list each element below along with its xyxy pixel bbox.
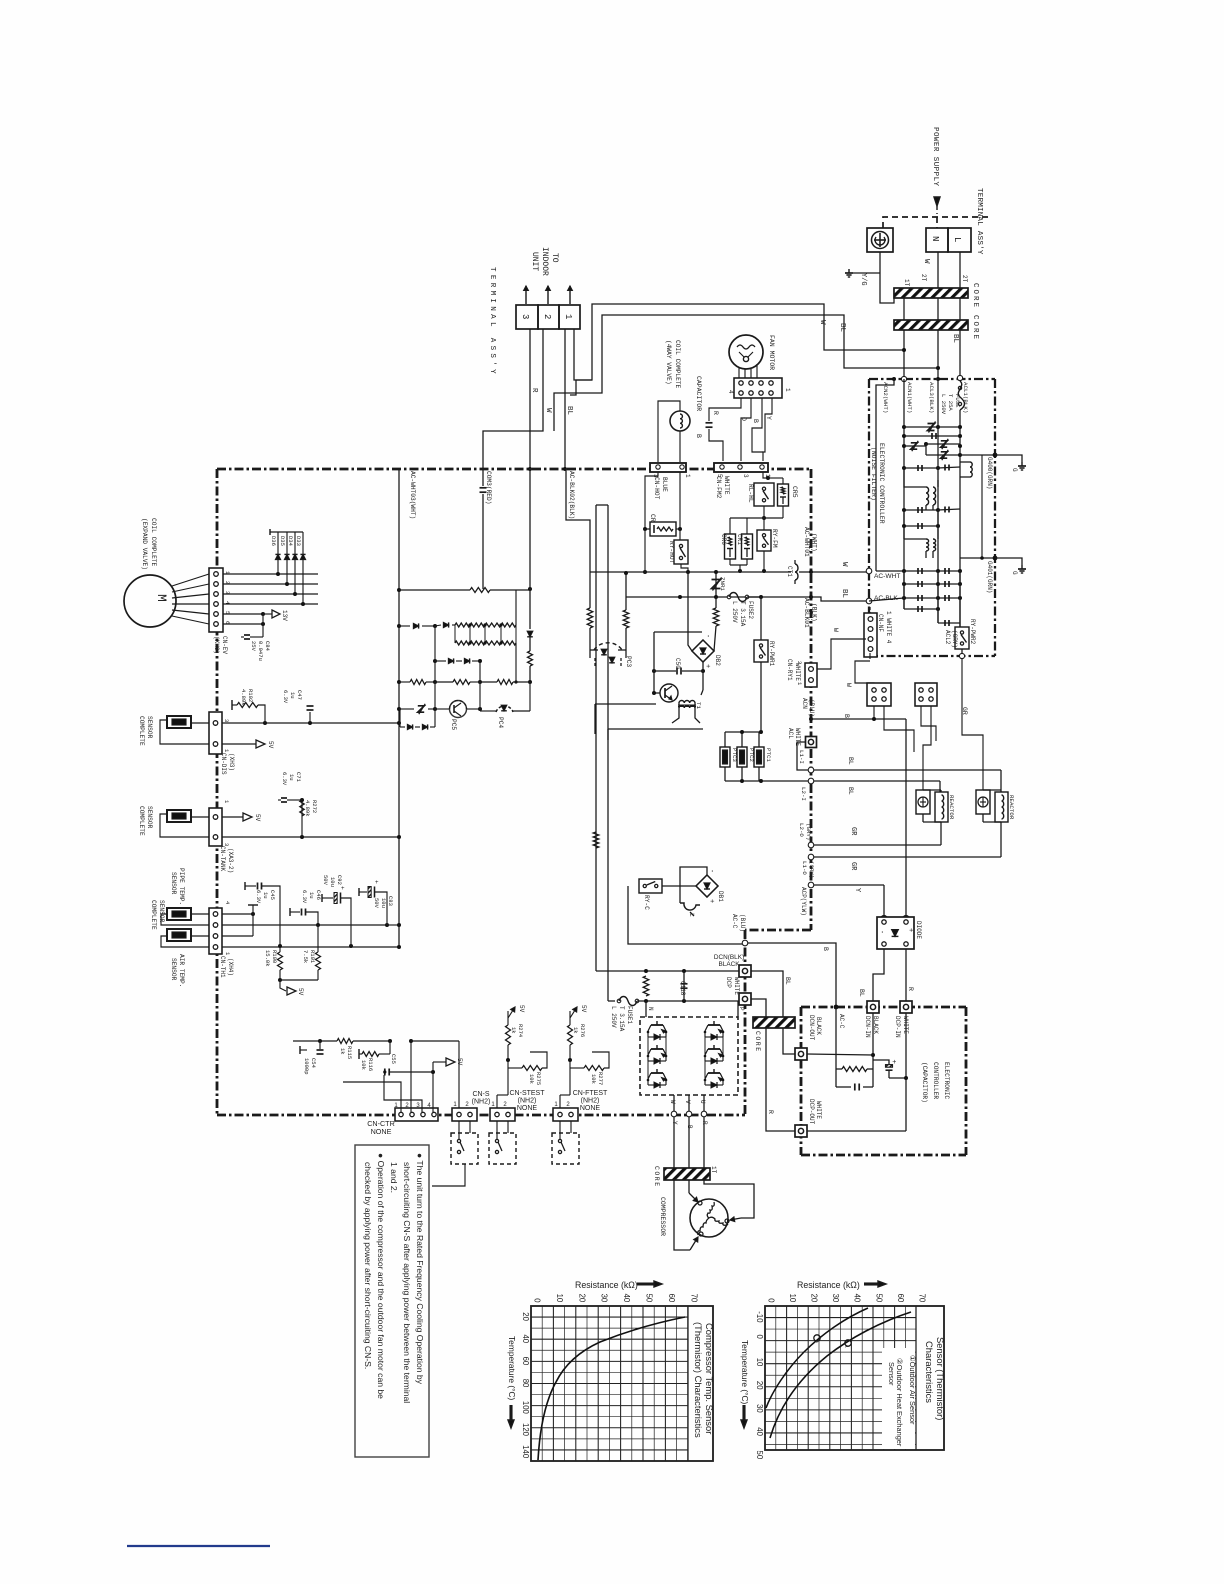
svg-text:CN-HOT: CN-HOT (653, 477, 660, 500)
noise filter box dash-dot (869, 378, 995, 380)
terminal L1-O (808, 854, 814, 860)
svg-text:T1: T1 (695, 702, 702, 709)
connector DCN (739, 965, 751, 977)
optocoupler PC3 (594, 643, 622, 650)
connector CN-FM2 on boundary (714, 463, 768, 472)
wire R115 R116 C54 C55 cluster (293, 1040, 337, 1042)
compressor wire B (688, 1180, 690, 1193)
N rail (596, 970, 740, 972)
svg-text:AC-WHT03(WHT): AC-WHT03(WHT) (409, 471, 416, 519)
reactor 2 (976, 790, 990, 814)
svg-text:2: 2 (542, 314, 552, 319)
svg-text:6.3V: 6.3V (301, 890, 308, 904)
resistor row y682 (399, 681, 410, 683)
connector DCN-IN (867, 1001, 879, 1013)
wire B down to diode box (905, 719, 907, 917)
svg-text:C54: C54 (310, 1058, 317, 1069)
svg-text:1k: 1k (572, 1027, 579, 1034)
svg-text:R277: R277 (597, 1072, 604, 1085)
svg-text:checked by applying power afte: checked by applying power after short-ci… (363, 1162, 373, 1369)
terminal ACP YLW (808, 882, 814, 888)
svg-text:L 250V: L 250V (610, 1006, 617, 1028)
capacitor connector block (734, 378, 782, 398)
svg-text:3: 3 (223, 719, 230, 722)
boundary circles U V W (671, 1111, 677, 1117)
varistor row1 (902, 425, 906, 429)
wire RY-HOT down (681, 564, 688, 572)
svg-text:V: V (684, 1100, 691, 1104)
wire GR L1-O to reactor2 (814, 856, 1001, 858)
svg-text:N: N (930, 236, 940, 241)
wire DCP-IN down (905, 1013, 907, 1131)
electrolytic cap (886, 1065, 893, 1068)
fuse 25A (958, 381, 964, 410)
svg-text:+: + (906, 928, 914, 932)
svg-text:GR: GR (961, 707, 968, 715)
svg-text:short-circuiting CN-S after ap: short-circuiting CN-S after applying pow… (402, 1162, 412, 1403)
wire diode to DCP-IN (905, 949, 907, 1001)
relay RY-PWR1 (754, 640, 768, 662)
cap C83 electrolytic (358, 888, 360, 896)
svg-text:25V: 25V (250, 641, 257, 652)
varistor ZNR1 (715, 572, 717, 597)
svg-text:(BLU): (BLU) (808, 699, 815, 717)
wire block B to reactor1 plug (923, 706, 931, 790)
5V arrow left (432, 1062, 434, 1112)
long wire down left (595, 505, 597, 971)
svg-text:10k: 10k (360, 1060, 367, 1071)
svg-text:CR5: CR5 (791, 486, 798, 498)
connector CN-STEST (490, 1108, 515, 1121)
graph1 compressor temp sensor (531, 1306, 713, 1461)
svg-text:5V: 5V (267, 741, 274, 749)
svg-text:40: 40 (853, 1294, 862, 1303)
wire RY-C to AC-C (628, 886, 742, 944)
fuse FUSE2 (678, 595, 682, 599)
svg-text:NONE: NONE (371, 1127, 392, 1136)
wire CN-S switch to note box (432, 1164, 465, 1186)
terminal ACL WHITE (806, 737, 817, 748)
arrows to indoor unit (525, 286, 527, 304)
current transformer CT1 (795, 564, 798, 580)
svg-text:PC4: PC4 (497, 717, 504, 728)
svg-text:BL: BL (847, 787, 854, 795)
svg-text:(NH2): (NH2) (581, 1098, 600, 1105)
svg-text:U: U (699, 1100, 706, 1104)
svg-text:N: N (647, 1007, 654, 1011)
wire CN-CTR pin2 up (410, 1041, 412, 1112)
wire CN-TANK pin1 5V (222, 816, 243, 818)
connector DCN-OUT (795, 1048, 807, 1060)
compressor R wire from DB1 (706, 897, 708, 908)
svg-text:AC-WHT01: AC-WHT01 (803, 527, 810, 557)
svg-text:POWER SUPPLY: POWER SUPPLY (931, 127, 939, 187)
wires fan motor to capacitor block (738, 367, 740, 378)
svg-text:(GRY): (GRY) (808, 861, 815, 878)
svg-text:W: W (832, 628, 839, 632)
compressor wire Y (674, 1180, 690, 1250)
svg-text:DIODE: DIODE (915, 921, 922, 939)
svg-text:GR: GR (849, 827, 857, 836)
svg-text:SENSOR: SENSOR (170, 872, 177, 895)
wire diode to DCN-IN (873, 949, 884, 1001)
svg-text:W: W (544, 408, 552, 413)
ground plug box (867, 228, 893, 252)
core 1 hatched (894, 288, 968, 298)
wire W from N (937, 252, 939, 288)
svg-text:BLACK: BLACK (719, 961, 741, 968)
wires lower loops (595, 703, 656, 705)
terminal block 3 2 1 (516, 305, 538, 329)
svg-text:ZNR1: ZNR1 (719, 577, 726, 591)
svg-text:DCP: DCP (725, 977, 732, 988)
svg-text:40: 40 (755, 1427, 764, 1436)
wire CN-DIS pin3 (222, 722, 399, 724)
cap row2 (902, 466, 906, 470)
svg-text:WHITE: WHITE (815, 1101, 822, 1119)
svg-text:(XH4): (XH4) (227, 958, 234, 976)
svg-text:COM3(RED): COM3(RED) (485, 471, 492, 504)
svg-text:+: + (703, 664, 711, 668)
svg-text:DCP-IN: DCP-IN (894, 1016, 901, 1038)
wire R column down (529, 468, 531, 589)
svg-text:R276: R276 (579, 1024, 586, 1037)
svg-text:7.5k: 7.5k (302, 950, 309, 964)
wire CN-TH1 pin3 long (222, 924, 387, 926)
svg-text:BLACK: BLACK (815, 1017, 822, 1035)
svg-text:C92: C92 (336, 875, 343, 885)
core 2 hatched (894, 320, 968, 330)
svg-text:L2-I: L2-I (800, 787, 807, 801)
svg-text:1u: 1u (308, 892, 315, 899)
svg-text:REACTOR: REACTOR (948, 795, 955, 820)
cap C47 (309, 712, 311, 723)
svg-text:30: 30 (831, 1294, 840, 1303)
bus line right of sensors (398, 469, 400, 947)
wire AC-BLK left drop (625, 573, 627, 597)
svg-text:C55: C55 (390, 1054, 397, 1064)
svg-text:RL-HL: RL-HL (747, 484, 754, 503)
svg-text:①Outdoor Air Sensor: ①Outdoor Air Sensor (908, 1355, 917, 1425)
cap C45 (244, 882, 246, 890)
wire block B left pin down (921, 706, 936, 741)
5V arrow sensors (280, 979, 318, 981)
svg-text:L: L (688, 913, 695, 917)
connector block A 2x2 (867, 683, 891, 706)
junction dots on boundary (528, 467, 532, 471)
svg-text:(Thermistor) Characteristics: (Thermistor) Characteristics (693, 1322, 704, 1438)
core dc hatched (753, 1017, 795, 1028)
svg-text:B: B (843, 714, 850, 718)
svg-text:C50: C50 (674, 658, 681, 669)
wire DB1 right to compressor R riser (718, 885, 751, 887)
svg-text:AC-BLK01: AC-BLK01 (803, 598, 810, 628)
wire CN-HOT3 to CR3 (645, 472, 658, 529)
compressor terminals (698, 1201, 702, 1205)
connector CN-RY1 on boundary (805, 663, 817, 687)
svg-text:40: 40 (521, 1334, 530, 1343)
svg-text:1u: 1u (288, 774, 295, 781)
wire pin6 C84 (223, 623, 263, 625)
svg-text:5V: 5V (254, 814, 261, 822)
svg-text:0: 0 (755, 1335, 764, 1340)
wire BL L1-I to reactor2 coil (814, 769, 1001, 771)
svg-text:Y: Y (765, 416, 772, 420)
svg-text:BL: BL (858, 989, 865, 997)
svg-text:CN-FM2: CN-FM2 (715, 476, 722, 499)
svg-text:TERMINAL ASS'Y: TERMINAL ASS'Y (488, 267, 496, 377)
svg-text:ACP(YLW): ACP(YLW) (800, 887, 807, 916)
svg-text:1T: 1T (903, 279, 910, 287)
diode box (877, 917, 914, 949)
filter entries (892, 377, 896, 381)
svg-text:COMPLETE: COMPLETE (138, 806, 145, 836)
svg-text:BL: BL (840, 589, 848, 599)
svg-text:R102: R102 (247, 689, 254, 702)
svg-text:PTC1: PTC1 (765, 748, 772, 762)
terminal L2-O (808, 842, 814, 848)
svg-text:AIR TEMP.: AIR TEMP. (178, 954, 185, 987)
module internal rails (647, 1032, 649, 1080)
svg-text:ELECTRONIC CONTROLLER: ELECTRONIC CONTROLLER (878, 443, 885, 524)
svg-text:AC-C: AC-C (731, 914, 738, 929)
resistor to PC3 left (587, 608, 593, 628)
svg-text:ACL1(BLK): ACL1(BLK) (962, 382, 969, 413)
PTC bottom bus to L2-I (725, 780, 808, 782)
svg-text:(BLK): (BLK) (811, 603, 818, 622)
svg-text:6.3V: 6.3V (281, 772, 288, 786)
svg-text:L1-O: L1-O (801, 861, 808, 875)
svg-text:Y/G: Y/G (859, 273, 867, 286)
svg-text:Temperature (°C): Temperature (°C) (740, 1340, 750, 1405)
svg-text:WHITE: WHITE (723, 476, 730, 495)
arrow power supply feed (934, 197, 940, 206)
svg-text:CORE: CORE (653, 1166, 660, 1188)
svg-text:Sensor: Sensor (887, 1362, 896, 1386)
wire W from cell2 (483, 329, 543, 486)
svg-text:CR1: CR1 (736, 534, 743, 545)
svg-text:R: R (701, 1121, 708, 1125)
ground Y/G (853, 272, 880, 274)
svg-text:-: - (707, 869, 715, 873)
svg-text:B: B (752, 419, 759, 423)
svg-text:W: W (669, 1100, 676, 1104)
svg-text:DCN-OUT: DCN-OUT (808, 1015, 815, 1041)
wire CN-DIS pin1 5V (222, 743, 256, 745)
wires relays to AC-WHT line (766, 476, 770, 480)
svg-text:DB2: DB2 (714, 655, 721, 666)
svg-text:60: 60 (521, 1357, 530, 1366)
svg-text:W: W (845, 683, 852, 687)
svg-text:NONE: NONE (517, 1105, 538, 1112)
diodes D36 D35 D34 D33 (277, 532, 279, 574)
svg-text:(GRY): (GRY) (805, 823, 812, 840)
svg-text:(XA3-2): (XA3-2) (227, 848, 234, 873)
svg-text:RY-FM: RY-FM (771, 529, 778, 548)
svg-text:CN-FTEST: CN-FTEST (573, 1090, 608, 1097)
svg-text:1 and 2.: 1 and 2. (389, 1162, 399, 1193)
wire CN-CTR pin1 left (343, 1082, 401, 1112)
wire ACL to L1-I (797, 742, 808, 770)
wires coil to CN-HOT (658, 401, 680, 462)
svg-text:ACL: ACL (787, 728, 794, 739)
svg-text:CN-RY1: CN-RY1 (786, 659, 793, 681)
wire AC-WHT main W line (590, 571, 788, 573)
motor M circle (124, 575, 176, 627)
svg-text:P: P (738, 1007, 745, 1011)
relay RY-C (639, 879, 662, 893)
svg-text:(NH2): (NH2) (472, 1099, 491, 1106)
svg-text:B: B (822, 947, 829, 951)
svg-text:BL: BL (838, 323, 846, 333)
svg-text:C118: C118 (679, 981, 686, 996)
svg-text:G: G (1011, 571, 1018, 575)
diode row y625 (399, 625, 410, 627)
wires CN-EV to diodes (223, 573, 318, 575)
svg-text:50V: 50V (373, 898, 380, 909)
wire top loop (654, 631, 702, 633)
transistor driver (660, 684, 678, 702)
varistor row2 (902, 444, 906, 448)
svg-text:ACN1(WHT): ACN1(WHT) (906, 382, 913, 413)
svg-text:RY-HOT: RY-HOT (668, 541, 675, 564)
power module dashed box (640, 1017, 738, 1095)
connector CN-FTEST (553, 1108, 578, 1121)
svg-text:PC3: PC3 (625, 656, 632, 667)
wire RY-HOT branch to DB2 (687, 572, 689, 633)
wire GR L2-O to reactor1 (814, 844, 941, 846)
svg-text:T 3.15A: T 3.15A (618, 1006, 625, 1032)
svg-text:C45: C45 (269, 890, 276, 900)
svg-text:R274: R274 (517, 1024, 524, 1038)
svg-text:20: 20 (810, 1294, 819, 1303)
terminal AC-C (742, 940, 748, 946)
svg-text:BLUE: BLUE (661, 477, 668, 492)
svg-text:1u: 1u (262, 892, 269, 899)
wire from plug box down (880, 252, 894, 303)
svg-text:1: 1 (784, 388, 791, 392)
svg-text:RY-PWR2: RY-PWR2 (969, 619, 976, 645)
svg-text:4.89k: 4.89k (304, 800, 311, 817)
svg-text:CN-TH1: CN-TH1 (219, 956, 226, 978)
wire CN-CTR pin3 to C55 (384, 1075, 422, 1112)
svg-text:Characteristics: Characteristics (924, 1341, 935, 1403)
optocoupler PC5 (450, 701, 467, 718)
svg-text:PC5: PC5 (450, 719, 457, 730)
wire Y to diode box (814, 884, 884, 886)
wires between cores (903, 298, 905, 320)
terminal L2-I (808, 778, 814, 784)
resistor R116 (358, 1049, 360, 1059)
svg-text:ELECTRONIC: ELECTRONIC (943, 1062, 950, 1099)
relay RL-HL (754, 483, 774, 506)
svg-text:GR: GR (849, 862, 857, 871)
svg-text:-: - (877, 930, 885, 934)
diode pair row y661 (434, 626, 436, 682)
svg-text:CT1: CT1 (786, 566, 793, 577)
connector CN-CTR (395, 1108, 438, 1121)
electronic controller capacitor box (801, 1006, 966, 1009)
wire T1 to C50 node (702, 671, 704, 690)
svg-text:ACN: ACN (801, 698, 808, 709)
outdoor controller boundary dash-dot (217, 468, 811, 471)
wire block A right pin down (884, 706, 914, 752)
svg-text:0: 0 (766, 1298, 775, 1303)
svg-text:5V: 5V (580, 1005, 587, 1013)
svg-text:T 3.15A: T 3.15A (739, 601, 746, 627)
wire G400 (960, 454, 995, 456)
long wire down right (607, 505, 609, 1001)
capacitor COM3 (480, 487, 487, 489)
svg-text:TERMINAL ASS'Y: TERMINAL ASS'Y (975, 188, 983, 255)
dot ACN junction (809, 717, 813, 721)
svg-text:FUSE2: FUSE2 (747, 601, 754, 619)
svg-text:TO: TO (550, 253, 559, 263)
wire CN-NF pin4 down (869, 653, 871, 656)
svg-text:COMPLETE: COMPLETE (138, 716, 145, 746)
svg-text:3: 3 (520, 314, 530, 319)
svg-text:30: 30 (600, 1294, 609, 1303)
svg-text:INDOOR: INDOOR (540, 247, 549, 276)
bleed resistor across DC bus (643, 976, 649, 996)
AC-WHT exit (866, 568, 872, 574)
svg-text:-10: -10 (755, 1311, 764, 1323)
cap C50 row (652, 669, 656, 673)
cap row 6 (904, 583, 960, 585)
svg-text:DCN(BLK): DCN(BLK) (714, 954, 744, 961)
svg-text:20: 20 (755, 1381, 764, 1390)
svg-text:CORE: CORE (971, 315, 979, 341)
resistor R276 1k (569, 1011, 571, 1025)
connector CN-EV (209, 568, 223, 632)
svg-text:R272: R272 (311, 800, 318, 813)
relay coil CR1 (742, 534, 753, 559)
wire B row (811, 718, 906, 720)
svg-text:D36: D36 (270, 536, 277, 546)
resistor R100 (278, 944, 282, 948)
svg-text:2T: 2T (961, 275, 968, 283)
sensor wires to CN-TH1 (191, 913, 209, 915)
svg-text:CONTROLLER: CONTROLLER (932, 1062, 939, 1099)
connector CN-HOT on boundary (650, 463, 686, 472)
svg-text:SENSOR: SENSOR (146, 806, 153, 829)
graph1 curve (538, 1317, 685, 1460)
svg-text:G: G (1011, 468, 1018, 472)
svg-text:20: 20 (521, 1312, 530, 1321)
svg-text:RY-C: RY-C (643, 895, 650, 910)
svg-text:AC-BLK02(BLK): AC-BLK02(BLK) (568, 471, 575, 519)
svg-text:SENSOR: SENSOR (170, 958, 177, 981)
connector DCP (739, 993, 751, 1005)
svg-text:● The unit turn to the Rated F: ● The unit turn to the Rated Frequency C… (415, 1153, 425, 1385)
svg-text:D34: D34 (287, 536, 294, 547)
svg-text:1T: 1T (710, 1166, 717, 1174)
svg-text:BL: BL (784, 977, 791, 985)
svg-text:BL: BL (847, 757, 854, 765)
connector CN-S (452, 1108, 477, 1121)
svg-text:(BLU): (BLU) (739, 914, 746, 932)
svg-text:1: 1 (563, 314, 573, 319)
svg-text:40: 40 (622, 1294, 631, 1303)
cap C118 (683, 971, 685, 1001)
svg-text:R: R (712, 411, 719, 415)
wire y1041 to CN-S pin1 (411, 1040, 459, 1042)
svg-text:FUSE1: FUSE1 (626, 1006, 633, 1024)
svg-text:10u: 10u (380, 898, 387, 908)
reactor 1 (922, 796, 924, 798)
svg-text:(4WAY VALVE): (4WAY VALVE) (665, 340, 672, 385)
wires to 1T core (673, 1117, 675, 1168)
